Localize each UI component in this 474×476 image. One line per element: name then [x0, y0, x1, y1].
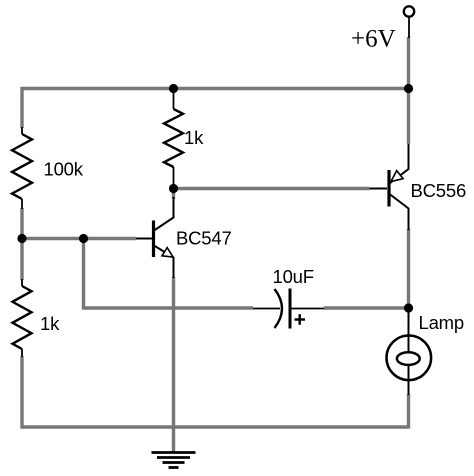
lamp: [387, 312, 432, 395]
svg-text:BC547: BC547: [176, 228, 232, 249]
wire top rail: [21, 87, 409, 90]
transistor Q1 BC547: [136, 197, 174, 278]
svg-text:10uF: 10uF: [273, 266, 314, 287]
wire capacitor to lamp node: [324, 306, 409, 309]
svg-text:+6V: +6V: [351, 26, 396, 53]
node at +6V rail and top rail: [404, 84, 413, 93]
wire left rail middle: [20, 208, 23, 280]
resistor R1 100k: [12, 127, 32, 209]
resistor R2 1k (middle): [164, 91, 183, 187]
svg-text:1k: 1k: [40, 313, 60, 334]
ground: [152, 453, 196, 468]
wire stub below node A: [172, 189, 175, 200]
wire right rail upper (+6V feed): [407, 37, 410, 144]
wire BC547 base: [22, 237, 136, 240]
wire bottom rail: [21, 425, 409, 428]
resistor R3 1k (left lower): [13, 279, 32, 357]
wire base node down and right to capacitor: [84, 239, 254, 309]
transistor Q2 BC556: [370, 144, 409, 230]
wire left rail upper: [20, 87, 23, 128]
svg-text:100k: 100k: [44, 159, 84, 180]
wire BC547 emitter to ground: [172, 277, 175, 452]
node at left rail and BC547 base wire: [17, 234, 26, 243]
svg-text:BC556: BC556: [411, 180, 467, 201]
node at capacitor / BC556 collector / lamp: [404, 303, 413, 312]
wire lamp bottom: [407, 394, 410, 429]
capacitor C1 10uF: [253, 289, 324, 329]
node A: 1k bottom / BC547 collector / BC556 base: [169, 184, 178, 193]
svg-text:1k: 1k: [184, 127, 204, 148]
wire BC556 collector to lamp node: [407, 229, 410, 308]
node at capacitor branch on base wire: [79, 234, 88, 243]
wire left rail lower: [20, 356, 23, 429]
terminal +6V: [404, 6, 414, 38]
node at top of 1k middle resistor: [169, 84, 178, 93]
svg-text:Lamp: Lamp: [419, 312, 464, 333]
wire node A to BC556 base: [174, 187, 370, 190]
